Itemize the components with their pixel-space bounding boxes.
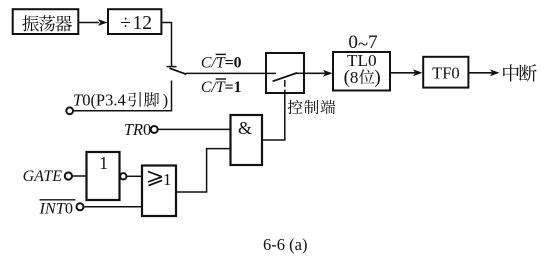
wire: oscillator to divider with arrowhead (78, 19, 107, 26)
wire: divider output down to switch contact (161, 23, 171, 67)
svg-text:÷ 12: ÷ 12 (120, 13, 152, 34)
TL0 box (8位) (333, 51, 390, 91)
wire: OR output to AND gate input (176, 149, 231, 192)
wire: control line from AND gate to switch box (262, 93, 285, 140)
label C/T=0 (201, 54, 242, 71)
wire arrow: switch to TL0 (304, 70, 333, 77)
wire: GATE to NOT gate (72, 175, 87, 177)
switch movable contact (C/T selector) (170, 68, 187, 74)
svg-text:): ) (163, 90, 169, 109)
INT0 terminal circle (77, 203, 84, 210)
svg-text:INT0: INT0 (39, 198, 73, 217)
TR0 terminal circle (151, 126, 158, 133)
label INT0 with overline (39, 198, 76, 217)
svg-text:1: 1 (163, 170, 172, 189)
oscillator box 振荡器 (13, 9, 79, 34)
wire: bubble to OR gate (127, 175, 143, 177)
svg-text:1: 1 (99, 153, 108, 173)
switch/control box (266, 53, 304, 93)
AND gate U1 (231, 115, 263, 165)
TF0 box (423, 57, 468, 88)
svg-text:C/T=1: C/T=1 (201, 79, 242, 96)
wire: switch pole to control box (186, 72, 267, 74)
wire arrow: TL0 to TF0 (390, 69, 423, 76)
svg-text:6-6 (a): 6-6 (a) (263, 235, 307, 254)
wire: TR0 to AND gate (158, 128, 231, 130)
wire: T0 terminal up to switch contact (73, 81, 171, 111)
wire arrow: TF0 to interrupt (468, 69, 499, 76)
NOT gate output bubble (120, 173, 126, 179)
label 中断 (503, 64, 519, 81)
svg-text:TF0: TF0 (432, 64, 460, 83)
NOT gate box 1 (87, 152, 120, 200)
svg-text:): ) (374, 67, 380, 88)
svg-text:TR0: TR0 (124, 120, 151, 139)
svg-text:T0(P3.4: T0(P3.4 (73, 90, 126, 109)
svg-text:&: & (238, 118, 252, 138)
svg-text:(8: (8 (344, 67, 359, 88)
svg-text:GATE: GATE (23, 168, 63, 185)
label 控制端 (288, 100, 303, 114)
T0 input terminal circle (66, 107, 73, 114)
label T0(P3.4引脚) (73, 90, 168, 109)
fixed contact tick (counter input) (167, 66, 177, 68)
svg-text:C/T=0: C/T=0 (201, 54, 242, 71)
divider box ÷12 (108, 9, 161, 34)
label C/T=1 (201, 79, 242, 96)
GATE terminal circle (65, 172, 72, 179)
OR gate box >=1 (142, 166, 176, 217)
wire: INT0 to OR gate (84, 206, 143, 208)
